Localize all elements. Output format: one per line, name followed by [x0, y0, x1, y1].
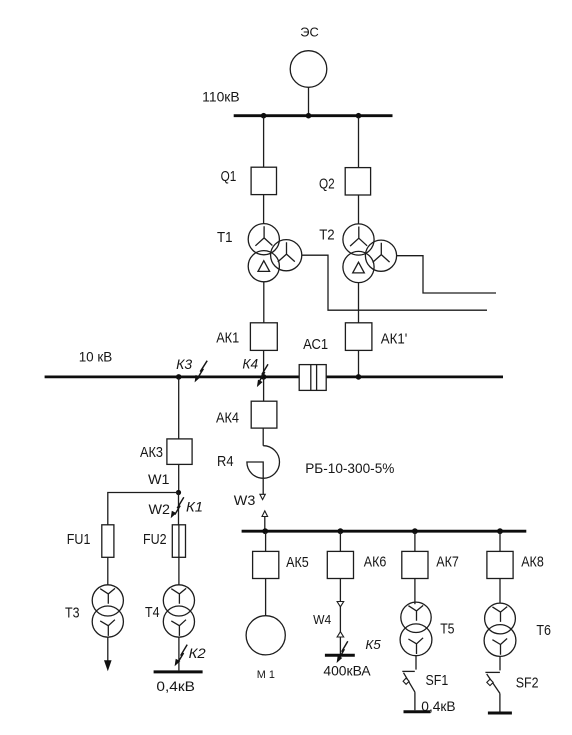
svg-text:FU2: FU2 [143, 532, 167, 548]
wire FU1 to T3 [107, 557, 109, 585]
svg-text:АК1': АК1' [381, 331, 408, 348]
cable W1 [148, 464, 179, 492]
svg-text:АС1: АС1 [303, 336, 328, 353]
svg-text:0,4кВ: 0,4кВ [156, 679, 195, 694]
svg-text:SF1: SF1 [426, 673, 449, 689]
transformer T3 (two-winding) [65, 585, 123, 637]
transformer T5 (two-winding) [400, 602, 454, 656]
bus terminal bar (below SF2) [488, 712, 512, 715]
svg-text:М 1: М 1 [257, 669, 275, 681]
breaker SF2 [485, 656, 538, 711]
generator ЭС (power system source) [290, 24, 327, 87]
svg-text:Q2: Q2 [319, 176, 335, 193]
wire FU2 to T4 [178, 557, 180, 585]
node: AK7 tap on section bus [412, 528, 418, 534]
svg-text:К3: К3 [176, 357, 193, 372]
cell AK7 [402, 551, 459, 578]
node: K4 junction on 10kV bus [261, 374, 267, 380]
breaker SF1 [402, 656, 448, 711]
fault K3 [176, 357, 207, 382]
svg-text:FU1: FU1 [67, 532, 91, 548]
wire 110kV bus to Q1 [263, 117, 265, 167]
svg-text:К4: К4 [242, 356, 258, 371]
svg-text:К2: К2 [189, 646, 207, 661]
wire T1 LV winding to AK1 [263, 282, 265, 323]
wire Q2 to T2 [358, 195, 360, 224]
svg-text:W2: W2 [149, 501, 171, 517]
wire AK8 to T6 [499, 579, 501, 604]
wire T2 LV winding to AK1' [358, 283, 360, 323]
transformer T2 (three-winding, Y/Y/D) [319, 224, 396, 283]
svg-text:Q1: Q1 [221, 168, 237, 185]
cable W2 [149, 493, 179, 525]
node: W1/W2/FU1 junction [176, 490, 181, 495]
cell AK4 [216, 401, 277, 428]
svg-text:SF2: SF2 [516, 676, 539, 692]
svg-text:АК4: АК4 [216, 410, 239, 427]
node: left feeder tap on 10kV bus [176, 374, 182, 380]
transformer T1 (three-winding, Y/Y/D) [217, 224, 302, 282]
motor M1 [246, 616, 285, 681]
fault K4 [242, 356, 268, 387]
wire Q1 to T1 [263, 195, 265, 224]
svg-text:Т4: Т4 [145, 605, 160, 621]
wire T4 to 0.4kV bar [178, 637, 180, 670]
node: AK1' tap on 10kV bus [356, 374, 362, 380]
svg-text:110кВ: 110кВ [202, 90, 239, 105]
bus 10kV secondary section [242, 530, 527, 533]
svg-text:Т1: Т1 [217, 229, 233, 246]
svg-text:РБ-10-300-5%: РБ-10-300-5% [305, 460, 394, 476]
cell AK6 [327, 551, 386, 578]
cell AK1' [345, 323, 407, 351]
feeder arrow below T3 [104, 637, 112, 671]
wire T1 MV winding to right feeder [302, 255, 487, 310]
wire section bus to AK6 [339, 532, 341, 551]
svg-text:W1: W1 [148, 471, 170, 487]
svg-text:Т2: Т2 [319, 227, 335, 244]
wire junction to FU1 [108, 493, 179, 525]
svg-text:Т5: Т5 [440, 622, 454, 638]
wire AK4 to reactor R4 [262, 428, 264, 446]
wire generator to 110kV bus [308, 87, 310, 117]
wire AK7 to T5 [414, 579, 416, 605]
svg-text:АК5: АК5 [286, 554, 309, 571]
wire section bus to AK5 [265, 532, 267, 551]
bus 10кВ [45, 349, 503, 377]
cell AK5 [253, 551, 309, 578]
transformer T6 (two-winding) [484, 603, 551, 656]
reactor R4 (РБ-10-300-5%) [217, 446, 394, 495]
svg-text:W3: W3 [234, 492, 256, 508]
node: generator tap on 110kV bus [306, 113, 312, 119]
node: AK8 tap on section bus [497, 528, 503, 534]
fault K2 [175, 645, 207, 667]
wire T2 MV winding to right feeder [397, 256, 496, 293]
svg-text:АК6: АК6 [364, 554, 387, 571]
node: AK5 tap on section bus [262, 528, 268, 534]
node: Q1 feeder tap on 110kV bus [261, 113, 267, 119]
node: Q2 feeder tap on 110kV bus [356, 113, 362, 119]
wire 10kV bus to AK3 [178, 378, 180, 439]
wire AK1' to 10kV bus [358, 350, 360, 375]
bus 0,4кВ (left, below T4) [154, 672, 203, 694]
svg-text:0,4кВ: 0,4кВ [421, 699, 455, 714]
svg-text:АК8: АК8 [521, 554, 544, 571]
bus 0,4кВ (below SF1) [404, 699, 456, 714]
cell AK1 [216, 323, 277, 351]
svg-text:Т3: Т3 [65, 606, 80, 622]
fuse FU2 [143, 525, 186, 558]
node: AK6 tap on section bus [338, 528, 344, 534]
cable W3 upper end (arrow down) [234, 492, 265, 508]
svg-text:К1: К1 [186, 499, 203, 514]
wire section bus to AK7 [414, 532, 416, 551]
fuse FU1 [67, 525, 114, 558]
fault K1 [171, 497, 203, 518]
svg-text:10 кВ: 10 кВ [79, 349, 113, 364]
breaker Q2 [319, 168, 371, 195]
svg-text:АК1: АК1 [216, 329, 239, 346]
transformer 400кВА terminal bar [323, 655, 371, 678]
cable W3 lower end (arrow up) [262, 511, 268, 530]
wire 110kV bus to Q2 [358, 117, 360, 168]
cell AK3 [140, 439, 192, 465]
wire AK1 to 10kV bus [263, 350, 265, 375]
svg-text:400кВА: 400кВА [323, 664, 371, 679]
wire 10kV bus to AK4 [263, 378, 265, 401]
wire AK5 to motor M1 [265, 579, 267, 616]
svg-text:R4: R4 [217, 453, 234, 470]
coupling device AC1 on bus [299, 336, 328, 391]
svg-text:ЭС: ЭС [300, 24, 319, 39]
transformer T4 (two-winding) [145, 585, 194, 637]
svg-text:W4: W4 [313, 612, 331, 627]
fault K5 [337, 637, 382, 663]
svg-text:Т6: Т6 [536, 623, 551, 639]
wire section bus to AK8 [499, 532, 501, 551]
cable W4 [313, 579, 344, 656]
svg-text:АК3: АК3 [140, 444, 163, 461]
breaker Q1 [221, 167, 277, 194]
svg-text:АК7: АК7 [436, 554, 459, 571]
bus 110кВ [202, 90, 392, 116]
cell AK8 [487, 551, 544, 578]
svg-text:К5: К5 [365, 637, 381, 652]
